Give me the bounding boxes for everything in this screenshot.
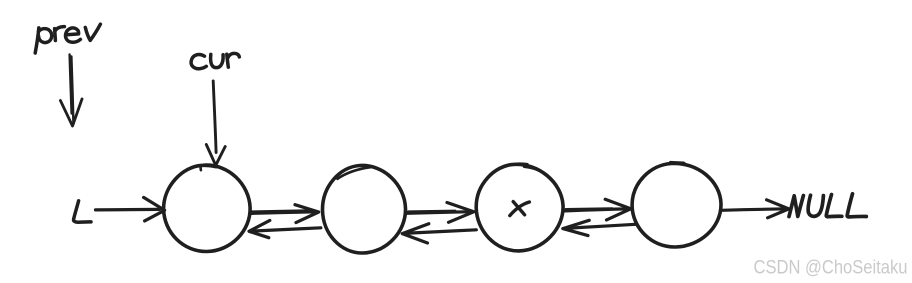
- wire forward 1-2: [251, 205, 319, 223]
- label L: [74, 201, 91, 222]
- svg-text:CSDN @ChoSeitaku: CSDN @ChoSeitaku: [754, 258, 908, 279]
- node circle 1: [164, 165, 251, 251]
- wire back 3-2: [402, 224, 476, 243]
- node circle 3 deleted: [476, 164, 563, 251]
- wire forward 3-4: [565, 199, 631, 220]
- node circle 2: [322, 165, 405, 253]
- arrow cur: [206, 81, 225, 165]
- wire forward 2-3: [408, 203, 474, 223]
- wire to NULL: [722, 200, 789, 218]
- label prev: [35, 24, 100, 53]
- label NULL: [789, 194, 866, 217]
- wire back 4-3: [563, 220, 636, 235]
- mark x in circle 3: [510, 202, 530, 216]
- wire back 2-1: [249, 220, 321, 237]
- arrow L: [96, 197, 165, 221]
- node circle 4: [632, 163, 721, 248]
- arrow prev: [60, 55, 82, 127]
- label cur: [191, 53, 239, 68]
